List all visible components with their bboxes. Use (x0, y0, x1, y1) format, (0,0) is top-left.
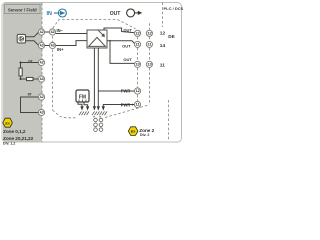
svg-text:2.1: 2.1 (136, 43, 140, 47)
svg-text:Div. 1,2: Div. 1,2 (3, 141, 15, 145)
svg-text:4.3: 4.3 (51, 44, 55, 48)
svg-text:1.2: 1.2 (136, 89, 140, 93)
svg-text:OUT: OUT (123, 57, 132, 62)
svg-text:Sensor / Field: Sensor / Field (8, 7, 37, 12)
svg-text:OUT: OUT (123, 28, 132, 33)
svg-text:IN: IN (47, 11, 52, 17)
svg-text:IN+: IN+ (57, 47, 64, 52)
svg-text:or: or (28, 91, 33, 96)
svg-text:2.2: 2.2 (136, 31, 140, 35)
svg-text:Div. 2: Div. 2 (140, 133, 149, 137)
svg-text:2.3: 2.3 (147, 63, 151, 67)
svg-text:Zone 0,1,2: Zone 0,1,2 (3, 129, 26, 135)
svg-text:4.3: 4.3 (40, 77, 44, 81)
svg-text:4.2: 4.2 (40, 30, 44, 34)
svg-text:DE: DE (168, 34, 174, 39)
svg-text:4.3: 4.3 (40, 44, 44, 48)
svg-text:IN–: IN– (57, 28, 64, 33)
svg-text:4.3: 4.3 (40, 111, 44, 115)
svg-text:PWR +: PWR + (121, 102, 135, 107)
svg-text:2.1: 2.1 (147, 43, 151, 47)
svg-text:2.3: 2.3 (136, 63, 140, 67)
svg-text:PLC / DCS: PLC / DCS (164, 6, 184, 11)
svg-text:PWR –: PWR – (121, 89, 135, 94)
svg-text:4.2: 4.2 (51, 30, 55, 34)
svg-text:4.2: 4.2 (40, 61, 44, 65)
svg-text:OUT: OUT (110, 11, 121, 17)
svg-text:12: 12 (160, 31, 166, 37)
svg-text:1.1: 1.1 (136, 103, 140, 107)
svg-text:2.2: 2.2 (147, 31, 151, 35)
svg-text:4.2: 4.2 (40, 95, 44, 99)
svg-text:14: 14 (160, 43, 166, 49)
svg-text:OUT: OUT (122, 43, 131, 48)
svg-text:11: 11 (160, 63, 165, 69)
